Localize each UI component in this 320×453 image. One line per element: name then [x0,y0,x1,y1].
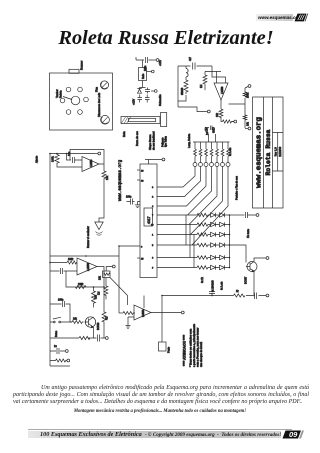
wire [67,154,72,161]
svg-text:LM358: LM358 [221,86,224,94]
diode D13 [220,265,230,269]
wire input1 [50,262,67,264]
resistor R17 [67,261,77,264]
wire feedback U3 [66,267,104,288]
footer page number 09 [280,430,308,439]
wire Q1 base [230,245,247,263]
svg-text:de aco inoxidavel: de aco inoxidavel [153,131,156,150]
resistor R8 [243,115,247,128]
IC pin stubs right [157,187,160,268]
svg-text:LM358: LM358 [90,159,93,167]
capacitor C4 [138,95,143,103]
resistor R2 [102,171,106,180]
resistor R13 [197,243,211,246]
wire to buzzer [99,180,104,222]
wire supply rail [50,255,119,257]
svg-text:10k: 10k [99,275,102,280]
svg-text:Tambor: Tambor [55,89,59,98]
svg-text:10k: 10k [216,112,219,117]
pushbutton S1 [50,317,72,322]
wire fan 4 [160,167,212,216]
diode D5 [211,232,220,236]
capacitor C9 [209,288,215,296]
lamp terminal 2 [199,163,203,167]
wire fan 1 [160,167,195,188]
resistor R6 [223,120,234,123]
diode D12 [211,265,220,269]
resistor R1 [55,154,59,165]
svg-text:220k: 220k [78,283,84,286]
title [6,27,320,50]
bus feed stubs [209,134,216,142]
wire [136,57,143,68]
lamp glyph 3 [205,142,208,163]
svg-text:6: 6 [152,258,154,260]
lamp L2 [101,115,110,124]
svg-text:5: 5 [152,245,154,247]
IC pin 15 [137,257,140,259]
terminal T14 [105,337,108,340]
terminal T15 [65,350,68,353]
svg-text:www.esquemas.org: www.esquemas.org [118,159,123,201]
solenoid coil L3 [186,69,188,77]
wire ic feed [118,246,120,313]
wire fan 5 [160,167,217,225]
drum hole 6 [78,110,83,115]
svg-text:4n7: 4n7 [189,56,192,61]
lamp terminal 5 [215,163,219,167]
terminal T7 [245,87,248,89]
capacitor C12 [61,268,63,274]
transistor Q1 [247,262,257,272]
svg-text:15: 15 [141,259,144,261]
resistor R12 [197,233,211,236]
transistor Q2 [85,317,95,327]
drum hole 1 [66,87,71,92]
svg-text:com a Peconha, para nao tomar: com a Peconha, para nao tomar [196,328,200,367]
svg-text:Rev 1.0: Rev 1.0 [273,147,277,156]
drum hole 4 [84,97,89,102]
resistor R22 [102,287,106,338]
svg-text:10k: 10k [247,121,250,126]
bold warning line [0,409,320,414]
svg-text:6x Leds: 6x Leds [221,281,224,290]
svg-text:10k: 10k [73,318,78,321]
svg-text:**** ATENCAO!! ****: **** ATENCAO!! **** [183,334,187,366]
resistor R3 [184,80,188,94]
terminal T13 [106,267,112,272]
terminal T9 [256,214,259,217]
svg-text:1M: 1M [200,85,203,88]
relay K1 [139,68,147,81]
svg-text:Roleta: Roleta [59,90,63,98]
footer bar [28,431,281,438]
mechanics box outline [50,73,113,130]
junction supply [49,153,120,288]
resistor R11 [197,223,211,226]
wire bottom end [50,365,70,367]
terminal T4 [151,90,155,92]
wire bottom rail 2 [50,337,105,339]
footer rule [28,428,292,431]
terminal T17 [181,311,184,314]
wire [221,117,223,122]
diode D7 [137,88,141,94]
wire step [178,95,205,112]
resistor R24 [50,359,67,362]
junction bottom rail [161,295,255,297]
drum hole 5 [66,110,71,115]
footer text [40,431,281,438]
end block [161,113,167,127]
terminal T3 [147,71,152,73]
wire U2 output [220,100,222,109]
resistor R20 [72,321,83,324]
svg-text:09: 09 [289,430,298,439]
svg-text:Barra de aco: Barra de aco [135,131,139,146]
terminal T12 [162,158,165,161]
capacitor C5 [145,95,150,103]
IC pin 8 [119,245,140,247]
wire input2 [50,270,77,272]
bar hatching [122,117,131,124]
svg-text:Lamp. Roleta: Lamp. Roleta [188,133,191,148]
resistor R14 [197,256,211,259]
svg-text:1u: 1u [54,345,57,348]
diode D9 [220,243,230,247]
svg-text:1M: 1M [98,292,101,295]
svg-text:Fio terra: Fio terra [247,228,250,238]
diode D8 [211,243,220,247]
diode D2 [220,213,230,217]
wire U4 out [151,312,181,314]
diode D3 [211,222,220,226]
pointer line [63,97,72,100]
capacitor C8 [246,212,257,218]
svg-text:www.esquemas.org: www.esquemas.org [255,116,263,188]
capacitor C6 [193,63,195,70]
diode D1 [211,213,220,217]
svg-text:6x 1k: 6x 1k [201,276,204,283]
wire row5 feed [160,257,197,259]
svg-text:100n: 100n [126,196,132,199]
title block [253,97,284,208]
svg-text:a parte mecanica e, principalm: a parte mecanica e, principalmente [192,323,196,367]
header banner www.esquemas.org [256,14,293,21]
resistor R25 [123,312,135,315]
wire outer loop [178,66,212,107]
svg-text:um choque de leve!!: um choque de leve!! [199,342,203,367]
wire inner loop [205,72,226,84]
svg-text:* Tome todos os cuidados com: * Tome todos os cuidados com [189,328,193,367]
capacitor C3 [145,88,150,94]
buzzer BZ2 on box top [69,69,79,73]
drum hole 3 [60,98,65,103]
svg-text:+12V: +12V [206,127,209,133]
svg-text:+12V: +12V [158,60,162,66]
capacitor C13 [50,304,72,322]
terminal T11 [266,294,269,297]
IC pin 16 [137,169,140,171]
wire rows right rail [229,215,231,268]
description paragraph [13,385,309,406]
connector block [159,342,167,351]
op-amp U4 [134,305,151,320]
junction rows rail [229,214,231,268]
svg-text:Buzzer c/ oscilador: Buzzer c/ oscilador [86,226,90,248]
terminal T6 [232,121,235,123]
svg-text:BC337: BC337 [245,276,248,284]
svg-text:Rele: Rele [141,73,145,79]
terminal T10 [266,257,269,260]
lamp terminal 1 [193,163,197,167]
lamp glyph 2 [199,142,202,163]
ground GND1 [135,202,140,208]
U1 top rail wire [50,153,95,155]
IC U5 4017 [140,164,157,278]
title block cells [273,133,284,172]
diode D6 [220,232,230,236]
capacitor C2 [146,57,148,63]
terminal T8 [245,128,248,130]
lamp glyph 1 [194,142,197,163]
wire [57,164,82,168]
wire bottom rail [162,295,266,297]
svg-text:1: 1 [152,235,154,237]
buzzer BZ1 [95,222,103,230]
wire relay bottom [140,81,146,88]
svg-text:tipo Teflon: tipo Teflon [165,135,168,147]
wire bundle v1 [185,215,187,245]
svg-text:Roleta Russa: Roleta Russa [265,129,272,175]
capacitor C10 [255,293,257,300]
collector chain wire [93,287,95,291]
svg-text:Fonte: Fonte [168,346,171,353]
svg-text:100k: 100k [247,92,250,98]
diode D10 [211,255,220,259]
lamp terminal 7 [226,163,230,167]
svg-text:16: 16 [141,171,144,173]
op-amp U1 [82,157,99,172]
capacitor C7 [205,126,215,131]
svg-text:Fixa: Fixa [95,87,99,92]
capacitor C14 [98,335,100,342]
trimmer RV1 [103,271,111,278]
svg-text:+12V: +12V [132,99,136,105]
svg-text:9: 9 [152,268,154,270]
wire U1 output [99,164,104,171]
diode D11 [220,255,230,259]
svg-text:Solenoide: Solenoide [158,94,162,106]
mechanical bar [121,117,160,124]
svg-text:Botao: Botao [55,330,58,337]
svg-text:2: 2 [152,197,154,199]
connector bus wire [193,141,230,143]
op-amp U2 [214,83,228,100]
wire fan 3 [160,167,206,207]
resistor R10 [197,213,211,216]
svg-text:7: 7 [152,215,154,217]
svg-text:4: 4 [152,206,154,208]
roulette drum circle [71,96,80,105]
terminal T16 [67,359,70,362]
wire U4 lower [128,317,134,325]
svg-text:11/10/09: 11/10/09 [278,146,282,156]
svg-text:LM358: LM358 [142,309,145,317]
wire right branch [229,88,246,115]
svg-text:3: 3 [152,187,154,189]
lamp glyph 5 [216,142,219,163]
svg-text:10: 10 [151,225,154,227]
svg-text:6x Leds: 6x Leds [229,147,232,156]
svg-text:Buzzer: Buzzer [80,61,84,70]
wire U4 input [119,312,123,314]
resistor R4 [203,75,207,90]
svg-text:1k: 1k [236,290,239,293]
lamp glyph 6 [221,142,224,163]
wire row1 right [230,214,245,216]
resistor R15 [197,266,211,269]
svg-text:Mola: Mola [122,131,126,137]
wire bundle v3 [193,235,195,268]
lamp glyph 4 [210,142,213,163]
wire U4 fb [128,296,145,309]
svg-text:Dimensoes dos Leds: Dimensoes dos Leds [97,92,101,117]
svg-text:10n: 10n [67,151,71,156]
wire IC top [145,160,162,165]
svg-text:GND: GND [213,127,216,133]
svg-text:BC548: BC548 [97,322,100,330]
svg-text:SB100: SB100 [181,87,184,95]
svg-text:100k: 100k [51,156,55,162]
svg-text:100k: 100k [68,258,74,261]
wire bundle v2 [189,225,191,258]
terminal T5 [205,111,208,113]
svg-text:10k: 10k [105,175,109,180]
resistor R23 [79,336,90,339]
wire fan 2 [160,167,201,197]
capacitor C1 [73,157,83,163]
resistor R16 [234,294,245,297]
wire fan 6 [160,167,223,235]
svg-text:4k7: 4k7 [106,315,109,320]
diode D4 [220,222,230,226]
wire fan 7 [160,167,228,246]
relay top cap wire [136,59,152,61]
IC pin 13 [137,179,140,181]
drum hole 2 [78,87,83,92]
header logo [293,13,310,22]
svg-text:4017: 4017 [147,216,151,224]
op-amp U3 [77,258,97,275]
terminal T2 [152,59,156,61]
terminal T1 [95,153,98,155]
svg-text:LM358: LM358 [86,263,90,271]
svg-text:100n: 100n [58,299,64,302]
resistor R18 [75,285,86,288]
resistor R19 [92,291,96,307]
wire row6 feed [160,267,197,269]
capacitor C11 [127,199,141,205]
ground GND2 [126,326,131,329]
lamp L1 [100,81,108,89]
capacitor C15 [50,348,65,354]
wire diagonal [110,278,128,296]
svg-text:13: 13 [141,181,144,183]
lamp glyph 7 [227,142,230,163]
svg-text:Ajuste: Ajuste [35,155,39,163]
lamp terminal 3 [204,163,208,167]
svg-text:Ponteiro + Fios de aco: Ponteiro + Fios de aco [236,175,239,200]
resistor R21 [104,278,108,300]
lamp terminal 4 [210,163,214,167]
svg-text:8: 8 [141,247,143,249]
left rail wire [49,154,51,367]
U1 feedback wire [70,150,104,165]
lamp terminal 6 [221,163,225,167]
wire left drop [161,296,163,343]
resistor R5 [219,109,223,118]
resistor R7 [243,92,247,97]
